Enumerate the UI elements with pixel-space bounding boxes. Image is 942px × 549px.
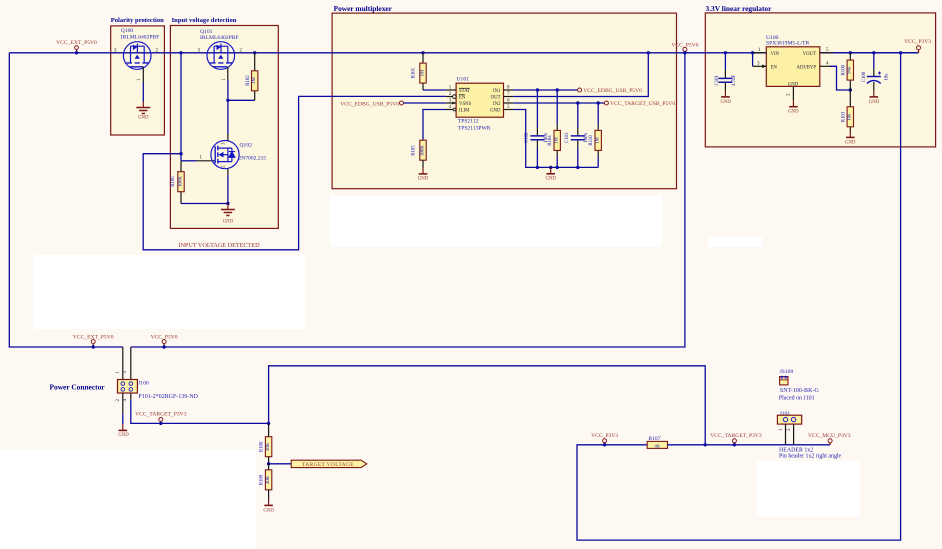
wire: R102 bottom link [228,99,255,101]
svg-text:3.3V linear regulator: 3.3V linear regulator [706,4,773,13]
pin 3 VSNS [446,102,456,104]
svg-text:40K: 40K [266,475,271,484]
transistor Q101 (IRLML6402PBF P-MOSFET, input voltage detection) [198,29,243,81]
svg-text:INPUT VOLTAGE DETECTED: INPUT VOLTAGE DETECTED [178,242,260,249]
svg-text:GND: GND [490,109,501,114]
wire: VCC_EXT left drop to connector [9,53,123,347]
resistor R106 100K (gate pulldown) [171,161,184,204]
svg-text:VCC_P3V3: VCC_P3V3 [904,39,931,45]
svg-text:GND: GND [788,110,799,115]
svg-text:IN2: IN2 [493,102,501,107]
svg-text:R100: R100 [841,64,846,75]
svg-text:GND: GND [720,100,731,105]
svg-text:Power Connector: Power Connector [50,382,106,391]
wire: R101 to STAT pin1 [423,89,446,91]
svg-text:Q100: Q100 [121,28,134,34]
wire: J100 pin2 to ground [122,413,124,424]
svg-text:Placed on J101: Placed on J101 [779,396,815,402]
resistor R110 1M [589,103,601,167]
svg-text:R103: R103 [841,111,846,122]
wire: IN1 line to port [513,89,578,91]
power port VCC_P5V0 (top, between blocks) [671,43,698,55]
ground (earth) under Q102 [221,204,235,225]
svg-text:Polarity protection: Polarity protection [111,17,164,24]
svg-text:R102: R102 [246,75,251,86]
jumper shunt JS100 [779,369,820,402]
svg-text:EN: EN [459,96,466,101]
svg-text:1M: 1M [555,136,560,143]
svg-text:R101: R101 [412,67,417,78]
svg-text:10u: 10u [885,73,890,81]
svg-text:1M: 1M [420,69,425,76]
svg-text:Input voltage detection: Input voltage detection [172,17,237,24]
wire: VOUT to VCC_P3V3 port [833,52,919,54]
resistor R102 1M (Q101 gate pullup) [246,51,258,100]
svg-text:VCC_EDBG_USB_P5V0: VCC_EDBG_USB_P5V0 [583,88,642,94]
pin 6 IN2 [504,102,514,104]
svg-text:1M: 1M [596,136,601,143]
svg-text:TPS2113PWR: TPS2113PWR [458,126,491,132]
connector J100 2x2 header [116,347,199,413]
transistor Q102 (2N7002,215 N-MOSFET) [211,134,267,175]
svg-text:GND: GND [845,141,856,146]
power port VCC_EDBG_USB_P5V0 (left, to VSNS) [340,101,446,107]
svg-text:300K: 300K [420,145,425,156]
svg-text:VSNS: VSNS [459,102,472,107]
wire: ILIM to R105 [423,110,446,141]
svg-text:C100: C100 [862,71,867,82]
connector J101 1x2 header [777,411,841,460]
svg-text:R105: R105 [412,145,417,156]
ground (earth) under Q100 [136,102,150,121]
resistor R108 40K (divider top) [260,437,272,464]
svg-text:U101: U101 [457,77,470,83]
resistor R109 40K (divider bottom) [260,464,272,499]
svg-text:Pin header 1x2 right angle: Pin header 1x2 right angle [779,454,842,460]
svg-text:GND: GND [869,100,880,105]
svg-text:IRLML6402PBF: IRLML6402PBF [121,35,160,41]
power port VCC_EXT_P5V0 (top) [56,40,97,54]
svg-text:VCC_TARGET_USB_P5V0: VCC_TARGET_USB_P5V0 [610,101,675,107]
white patch bottom-right [757,461,860,517]
svg-text:R106: R106 [171,176,176,187]
white patch bottom-left [0,450,256,549]
svg-text:1M: 1M [252,76,257,83]
block: 3.3V linear regulator [705,13,935,147]
svg-text:IN1: IN1 [493,89,501,94]
svg-text:TPS2112: TPS2112 [458,119,479,125]
svg-text:VCC_P3V3: VCC_P3V3 [591,433,618,439]
svg-text:R110: R110 [589,135,594,146]
svg-text:R108: R108 [260,441,265,452]
svg-text:ILIM: ILIM [459,109,470,114]
power port VCC_MCU_P3V3 [808,433,851,445]
block: Power multiplexer [332,13,676,189]
wire: VCC_P3V3 long loop to bottom [899,51,902,54]
wire: J100 pin4 to VCC_TARGET_P3V3 run [131,400,269,423]
power port VCC_TARGET_P3V3 (connector) [135,412,187,425]
junction dot target divider [267,422,270,425]
wire: gate node to Q102 gate [181,160,196,162]
power port VCC_P3V3 (top right) [904,39,931,53]
white patch right-mid small [708,237,762,247]
pin 1 STAT [446,89,456,91]
svg-text:4.7uF: 4.7uF [732,74,737,85]
wire: IN2 line to port [513,102,604,104]
white patch mid-left [33,255,305,329]
svg-text:VCC_TARGET_P3V3: VCC_TARGET_P3V3 [710,433,762,439]
pin 1 VIN [751,51,754,54]
ground bar under R103 [845,131,856,146]
pin 5 GND [504,109,514,111]
pin 8 IN1 [504,89,514,91]
junction dots on ground rail [536,166,539,169]
svg-text:Q102: Q102 [240,143,253,149]
resistor R105 300K (current limit) [412,140,427,167]
svg-text:18k: 18k [848,113,853,121]
pin 7 OUT [504,96,514,98]
wire: OUT to +5V rail riser [513,53,648,97]
capacitor C103 100n [565,103,589,167]
junction dot: INPUT_VOLTAGE_DETECTED tap [179,152,182,155]
ground bar under C101 [720,91,731,106]
svg-text:JS100: JS100 [780,369,794,375]
svg-text:VCC_MCU_P3V3: VCC_MCU_P3V3 [808,433,851,439]
svg-text:100K: 100K [178,176,183,187]
wire: Q100 gate to ground [142,83,144,102]
svg-text:GND: GND [418,177,429,182]
ground bar under R105 [418,168,429,182]
wire: VCC_P5V0 drop to connector row [131,53,685,347]
op-amp U100 SPX3819 regulator IC [751,35,833,100]
resistor R103 18k [841,90,853,131]
wire: R106 bottom to Q102 source/GND [181,203,228,205]
svg-text:TARGET VOLTAGE: TARGET VOLTAGE [302,462,354,468]
svg-text:SNT-100-BK-G: SNT-100-BK-G [780,388,820,394]
pin 3 EN [752,53,754,67]
wire: main +5V rail [9,52,918,54]
capacitor C100 10u (output, polarized) [862,51,889,90]
power port VCC_P3V3 (bottom) [591,433,618,446]
svg-text:GND: GND [138,115,149,120]
capacitor C102 100n [525,90,549,167]
svg-text:VCC_TARGET_P3V3: VCC_TARGET_P3V3 [135,412,187,418]
svg-text:GND: GND [263,509,274,514]
resistor R107 0R (horizontal) [647,436,667,448]
svg-text:2N7002,215: 2N7002,215 [238,155,266,161]
svg-text:IRLML6402PBF: IRLML6402PBF [200,35,239,41]
wire: Q102 drain up to Q101 gate / R102 [227,100,229,134]
power port VCC_TARGET_P3V3 (bottom) [710,433,762,446]
power port VCC_EXT_P5V0 (connector) [73,335,114,349]
svg-text:EN: EN [771,66,778,71]
pin 4 ADJ/BYP [820,65,830,67]
wire: divider tap to flag [269,463,292,465]
svg-text:Power multiplexer: Power multiplexer [334,4,393,13]
svg-text:SPX3819M5-L/TR: SPX3819M5-L/TR [766,40,809,46]
wire: rail down to Q102 gate node [180,53,182,161]
pin 4 ILIM [446,109,453,111]
svg-text:C101: C101 [715,75,720,86]
svg-text:VIN: VIN [771,52,780,57]
ground bar on mux ground rail [545,167,556,181]
svg-text:C103: C103 [565,132,570,143]
svg-text:GND: GND [545,177,556,182]
svg-text:R109: R109 [260,474,265,485]
block: Input voltage detection [170,26,278,229]
resistor R101 1M (STAT pullup) [412,51,427,90]
svg-text:GND: GND [223,220,234,225]
svg-text:VOUT: VOUT [803,52,816,57]
wire: R107 to MCU port [668,444,831,446]
white patch under power multiplexer [330,196,662,247]
svg-text:ADJ/BYP: ADJ/BYP [797,66,817,71]
net flag TARGET VOLTAGE [291,460,367,468]
wire: ADJ to divider [830,66,850,90]
pin 5 VOUT [820,52,833,54]
op-amp U101 TPS2113 power mux IC [446,77,513,132]
ground bar under R109 [263,499,274,514]
svg-text:OUT: OUT [491,96,501,101]
svg-text:R104: R104 [548,135,553,146]
power port VCC_P5V0 (connector) [151,335,178,349]
ground bar under C100 [869,91,880,106]
ground bar under J100 pin2 [118,424,129,438]
wire: INPUT_VOLTAGE_DETECTED loop [143,96,446,249]
wire: target 3V3 riser and cross link [269,366,706,445]
resistor R104 1M [548,90,560,167]
svg-text:40K: 40K [266,442,271,451]
transistor Q100 (IRLML6402PBF P-MOSFET, polarity protection) [114,28,159,83]
svg-text:P101-2*02RGF-139-ND: P101-2*02RGF-139-ND [138,394,198,400]
svg-text:C102: C102 [525,132,530,143]
svg-text:HEADER 1x2: HEADER 1x2 [779,447,813,453]
junction dot: rail to detection tap [179,51,182,54]
svg-text:0R: 0R [655,443,661,448]
svg-text:GND: GND [118,433,129,438]
ground bar under U100 [788,100,799,114]
svg-text:96k: 96k [848,66,853,74]
wire: Q102 source to gnd rail [227,175,229,204]
capacitor C101 4.7uF (input cap) [715,51,737,90]
svg-text:STAT: STAT [459,89,470,94]
svg-text:VCC_EDBG_USB_P5V0: VCC_EDBG_USB_P5V0 [340,101,399,107]
resistor R100 96k [841,51,853,90]
power port VCC_EDBG_USB_P5V0 (right) [578,88,643,94]
block: Polarity protection [111,26,165,135]
power port VCC_TARGET_USB_P5V0 [604,101,675,107]
svg-text:J100: J100 [138,381,149,387]
wire: GND pin5 to ground rail [513,110,598,168]
pin 2 EN (active low bubble) [446,96,453,98]
